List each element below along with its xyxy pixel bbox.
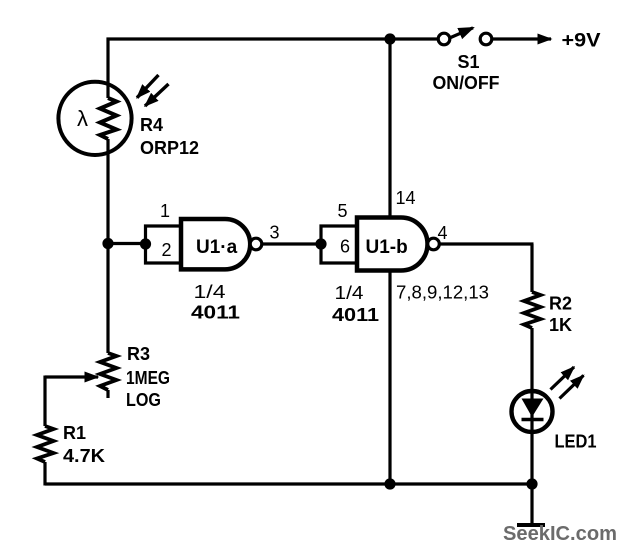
wire U1-a output to U1-b input (262, 242, 321, 245)
light arrow 2 out of LED (560, 375, 584, 398)
svg-text:ON/OFF: ON/OFF (433, 73, 500, 93)
wire to +9V with arrow (492, 37, 551, 40)
nand gate U1-a body (181, 219, 250, 269)
nand gate U1-b body (357, 218, 428, 271)
svg-text:λ: λ (77, 106, 88, 131)
svg-text:LOG: LOG (126, 390, 161, 410)
wire to ground (530, 484, 533, 523)
wire R2 branch down (530, 244, 533, 292)
svg-text:S1: S1 (458, 52, 480, 72)
light arrow 1 into LDR (137, 75, 159, 98)
wire R1 to bottom rail (43, 462, 46, 486)
LED1 circle (512, 391, 553, 432)
svg-text:1: 1 (160, 201, 170, 221)
wire wiper down to R1 (43, 376, 46, 427)
wire U1-b output to R2 branch (440, 242, 534, 245)
wire left rail middle (106, 139, 109, 353)
light arrow 1 out of LED (551, 367, 575, 390)
svg-text:6: 6 (340, 237, 350, 257)
light arrow 2 into LDR (145, 84, 169, 106)
LED1 triangle (522, 399, 544, 418)
wire R2 to LED (530, 328, 533, 484)
svg-text:4.7K: 4.7K (63, 446, 105, 466)
svg-text:1/4: 1/4 (194, 282, 226, 302)
svg-text:3: 3 (270, 223, 280, 243)
svg-text:ORP12: ORP12 (140, 138, 199, 158)
wire R3 bottom stub (106, 390, 109, 398)
wire top rail (107, 37, 438, 40)
svg-text:SeekIC.com: SeekIC.com (503, 522, 617, 545)
svg-text:U1-b: U1-b (366, 237, 408, 258)
node junction bottom pin7 branch (384, 478, 395, 489)
node junction top at pin14 branch (384, 33, 395, 44)
wire bottom rail (45, 482, 532, 485)
svg-text:R2: R2 (549, 294, 572, 314)
svg-text:4: 4 (438, 223, 448, 243)
wire left vertical rail (106, 38, 109, 99)
svg-text:4011: 4011 (332, 305, 379, 325)
R3 wiper arrow (45, 375, 98, 378)
svg-text:1/4: 1/4 (335, 283, 364, 303)
photoresistor R4 (ORP12) circle (58, 82, 131, 155)
svg-text:2: 2 (162, 240, 172, 260)
svg-text:R3: R3 (127, 344, 150, 364)
node junction at U1-a input box (140, 238, 151, 249)
svg-text:7,8,9,12,13: 7,8,9,12,13 (396, 283, 489, 303)
wire U1-a input tie box (146, 226, 182, 263)
wire to U1-a inputs (108, 242, 146, 245)
svg-text:4011: 4011 (191, 303, 240, 323)
node junction at U1-b input box (315, 238, 326, 249)
svg-text:R4: R4 (140, 115, 163, 135)
wire pins 7,8,9,12,13 down from gate (388, 270, 391, 484)
resistor R4 zigzag (LDR element) (100, 98, 117, 139)
wire U1-b input tie box (321, 226, 357, 263)
svg-text:1K: 1K (549, 315, 572, 335)
svg-text:14: 14 (396, 188, 416, 208)
node junction on left rail (102, 238, 113, 249)
svg-text:LED1: LED1 (555, 432, 597, 452)
LED1 cathode bar (522, 418, 544, 421)
svg-text:+9V: +9V (562, 31, 601, 52)
ground (517, 523, 545, 527)
svg-text:1MEG: 1MEG (126, 368, 170, 388)
svg-text:R1: R1 (63, 423, 86, 443)
svg-text:5: 5 (338, 201, 348, 221)
resistor R1 zigzag (37, 426, 54, 462)
switch S1 (433, 28, 500, 93)
nand gate U1-b output bubble (428, 238, 440, 250)
nand gate U1-a output bubble (250, 238, 262, 250)
node junction bottom LED branch (526, 478, 537, 489)
potentiometer R3 zigzag (100, 353, 117, 390)
wire pin 14 from top rail (388, 39, 391, 218)
resistor R2 zigzag (524, 292, 541, 328)
svg-text:U1·a: U1·a (196, 237, 238, 258)
